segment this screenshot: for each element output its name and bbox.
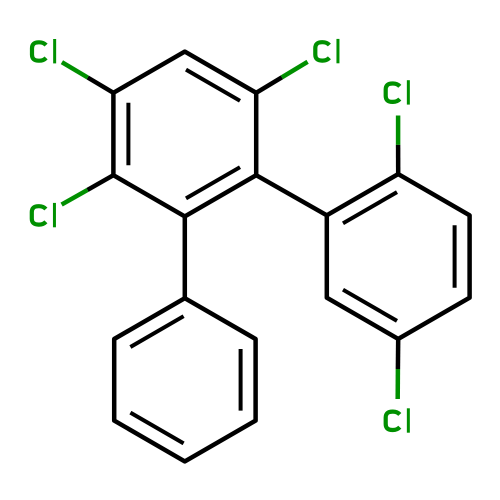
ring C double bond inner line (bottom-left edge): [130, 413, 183, 444]
ring A double bond inner line (top-right edge): [186, 70, 240, 101]
bond to top-right chlorine, chlorine half: [282, 62, 308, 78]
ring B double bond inner line (bottom-left edge): [343, 290, 397, 321]
ring B double bond inner line (right edge): [453, 225, 457, 287]
benzene ring A (central trichlorophenyl) outline: [113, 52, 256, 217]
ring C double bond inner line (top-left edge): [130, 316, 183, 347]
benzene ring B (right 2,5-dichlorophenyl) outline: [327, 174, 470, 339]
ring C double bond inner line (right edge): [239, 349, 243, 411]
bond to right-ring top chlorine, chlorine half: [396, 116, 401, 145]
bond to top-left chlorine, carbon half: [88, 78, 114, 93]
bond to left chlorine, chlorine half: [62, 190, 88, 205]
bond to left chlorine, carbon half: [88, 175, 114, 190]
ring A double bond inner line (left edge): [126, 103, 130, 165]
bond to top-left chlorine, chlorine half: [62, 62, 88, 77]
ring B double bond inner line (top-left edge): [343, 192, 397, 223]
benzene ring C (bottom phenyl) outline: [114, 298, 255, 461]
bond to right-ring top chlorine, carbon half: [396, 145, 401, 174]
chlorine label Cl (right-ring top): [386, 80, 409, 104]
chlorine label Cl (left): [32, 203, 55, 227]
ring A double bond inner line (bottom-right edge): [186, 167, 240, 198]
chlorine label Cl (top-right): [315, 39, 338, 63]
chlorine label Cl (top-left): [32, 39, 55, 63]
biaryl bond ring A to ring C (vertical): [183, 216, 188, 298]
bond to right-ring bottom chlorine, chlorine half: [395, 369, 400, 399]
chlorine label Cl (right-ring bottom): [386, 408, 409, 432]
biaryl bond ring A to ring B: [256, 175, 327, 215]
bond to top-right chlorine, carbon half: [256, 77, 282, 93]
bond to right-ring bottom chlorine, carbon half: [396, 339, 401, 369]
